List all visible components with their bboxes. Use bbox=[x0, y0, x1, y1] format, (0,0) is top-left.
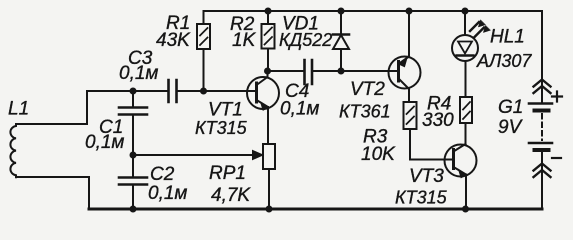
LED HL1 bbox=[452, 20, 490, 61]
svg-text:VT3: VT3 bbox=[409, 166, 444, 187]
connector chevron bottom bbox=[534, 164, 551, 178]
svg-text:4,7K: 4,7K bbox=[211, 185, 251, 206]
node wiper junction bbox=[130, 152, 137, 159]
diode VD1 bbox=[333, 11, 349, 71]
wire R2 bottom lead bbox=[267, 49, 269, 72]
resistor R2 bbox=[262, 24, 275, 49]
svg-text:C2: C2 bbox=[150, 164, 175, 185]
cell 2 minus plate bbox=[535, 148, 549, 152]
cell 1 plus plate bbox=[529, 102, 552, 105]
wire battery branch top bbox=[541, 11, 543, 103]
wire R3 bottom / VT3 base bbox=[410, 129, 453, 160]
capacitor C2 bbox=[119, 178, 147, 185]
minus sign bbox=[552, 157, 561, 159]
resistor R3 bbox=[404, 102, 417, 129]
wire R1 bottom lead bbox=[203, 49, 205, 91]
inductor L1 bbox=[10, 124, 16, 177]
wire main signal line left bbox=[87, 90, 167, 92]
wire battery branch bottom bbox=[541, 152, 543, 209]
svg-text:L1: L1 bbox=[8, 99, 29, 120]
wire main signal line right bbox=[178, 90, 256, 92]
svg-text:КТ315: КТ315 bbox=[195, 118, 248, 138]
svg-text:HL1: HL1 bbox=[490, 27, 525, 48]
wire riser to signal line bbox=[86, 91, 88, 124]
dashed link bbox=[541, 114, 543, 140]
transistor VT3 bbox=[445, 123, 477, 209]
wire C1 top lead bbox=[132, 91, 134, 106]
node R1 junction bbox=[200, 88, 207, 95]
wire top bus bbox=[204, 10, 543, 12]
svg-text:330: 330 bbox=[422, 110, 454, 131]
wire R1 top lead bbox=[203, 11, 205, 24]
wire R2 top lead bbox=[267, 11, 269, 24]
wire wiper arm bbox=[133, 154, 252, 156]
node HL1 top junction bbox=[462, 8, 469, 15]
wire R4 top lead bbox=[465, 61, 467, 97]
wire HL1 top lead bbox=[464, 11, 466, 35]
wire C1-C2 link bbox=[132, 116, 134, 176]
capacitor C1 bbox=[119, 108, 147, 115]
wire L1 top lead bbox=[16, 123, 87, 125]
svg-text:0,1м: 0,1м bbox=[119, 63, 158, 84]
node VD1 top junction bbox=[338, 8, 345, 15]
svg-text:КТ315: КТ315 bbox=[395, 188, 448, 208]
svg-text:АЛ307: АЛ307 bbox=[476, 51, 532, 71]
cell 1 minus plate bbox=[535, 109, 549, 113]
node C4/collector junction bbox=[264, 68, 271, 75]
resistor R1 bbox=[197, 24, 210, 49]
node R2 top junction bbox=[265, 8, 272, 15]
node VT2 emitter top junction bbox=[406, 8, 413, 15]
svg-text:43K: 43K bbox=[156, 30, 191, 51]
node C2 bottom junction bbox=[130, 206, 137, 213]
wire C4 right lead / VT2 base bbox=[313, 70, 399, 72]
wire C2 bottom lead bbox=[132, 186, 134, 209]
battery G1 bbox=[529, 80, 562, 178]
wire L1 bottom lead bbox=[16, 176, 89, 178]
svg-text:10K: 10K bbox=[361, 144, 396, 165]
plus sign bbox=[552, 92, 562, 102]
svg-text:КД522: КД522 bbox=[279, 30, 332, 50]
wire drop to bottom bus bbox=[88, 177, 90, 209]
svg-text:G1: G1 bbox=[498, 97, 523, 118]
svg-text:0,1м: 0,1м bbox=[148, 183, 187, 204]
node C1 top junction bbox=[130, 88, 137, 95]
connector chevron top bbox=[534, 80, 551, 94]
svg-text:0,1м: 0,1м bbox=[85, 132, 124, 153]
wire bottom bus bbox=[89, 208, 542, 211]
node VT3 emitter bottom junction bbox=[462, 206, 469, 213]
resistor R4 bbox=[460, 97, 472, 123]
svg-text:КТ361: КТ361 bbox=[339, 102, 391, 122]
node VD1 bottom junction bbox=[338, 68, 345, 75]
cell 2 plus plate bbox=[529, 142, 552, 145]
wire C4 left lead bbox=[268, 70, 304, 72]
potentiometer RP1 bbox=[252, 144, 275, 169]
transistor VT1 bbox=[247, 71, 279, 144]
svg-text:9V: 9V bbox=[498, 117, 524, 138]
capacitor C4 bbox=[305, 60, 313, 84]
svg-text:RP1: RP1 bbox=[209, 163, 246, 184]
svg-text:1K: 1K bbox=[232, 30, 257, 51]
transistor VT2 bbox=[389, 11, 421, 102]
capacitor C3 bbox=[169, 80, 177, 102]
wire RP1 bottom lead bbox=[268, 169, 270, 209]
node RP1 bottom junction bbox=[266, 206, 273, 213]
svg-text:0,1м: 0,1м bbox=[280, 99, 319, 120]
svg-text:VT2: VT2 bbox=[350, 79, 385, 100]
